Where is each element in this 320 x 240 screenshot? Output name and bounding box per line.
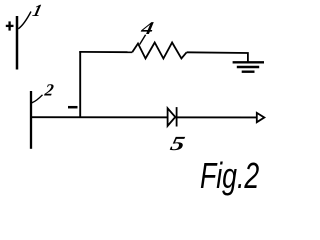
wire: top segment from resistor to ground [187,52,248,62]
minus polarity symbol [68,106,78,109]
wire: vertical branch [79,51,81,117]
electrode 2 [30,91,32,149]
leader line for label 4 [140,35,146,45]
svg-text:4: 4 [139,18,156,39]
ground symbol [233,62,264,71]
electrode 1 [16,16,19,70]
wire: top segment to resistor [79,51,132,53]
leader line for label 1 [18,12,31,29]
wire: main horizontal output line [30,116,257,118]
figure caption Fig.2 [200,155,260,196]
diode 5 [168,107,177,126]
svg-text:1: 1 [31,1,44,20]
resistor 4 [132,43,186,59]
svg-text:5: 5 [168,133,186,155]
svg-text:2: 2 [43,80,56,99]
plus polarity symbol [6,21,14,30]
leader line for label 2 [32,95,43,103]
output arrowhead [257,113,265,122]
svg-text:Fig.2: Fig.2 [200,155,260,196]
